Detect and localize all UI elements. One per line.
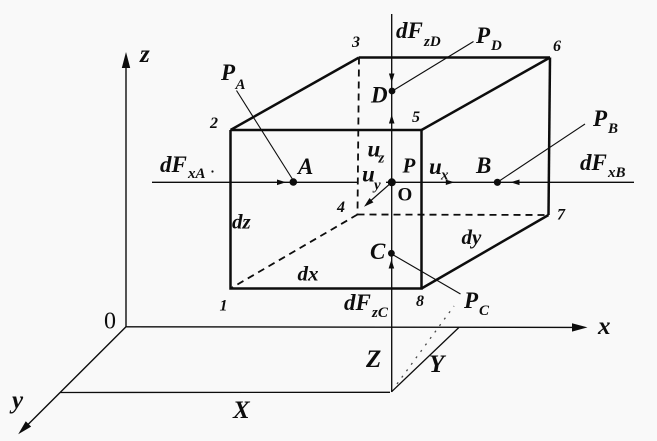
svg-text:4: 4 bbox=[336, 199, 345, 216]
svg-text:P: P bbox=[592, 106, 608, 131]
svg-text:C: C bbox=[370, 239, 386, 264]
svg-text:Z: Z bbox=[365, 346, 381, 373]
svg-text:2: 2 bbox=[209, 115, 218, 132]
svg-text:D: D bbox=[370, 83, 388, 108]
svg-text:A: A bbox=[235, 77, 246, 93]
svg-text:O: O bbox=[398, 185, 413, 206]
svg-text:dF: dF bbox=[396, 18, 423, 43]
svg-text:dy: dy bbox=[462, 225, 483, 249]
svg-text:0: 0 bbox=[104, 309, 116, 335]
svg-text:1: 1 bbox=[220, 298, 228, 315]
svg-text:x: x bbox=[597, 313, 611, 340]
svg-text:8: 8 bbox=[416, 293, 424, 310]
svg-text:7: 7 bbox=[557, 207, 566, 224]
svg-text:dF: dF bbox=[160, 152, 187, 177]
svg-text:z: z bbox=[139, 41, 150, 68]
svg-text:A: A bbox=[296, 154, 313, 179]
svg-text:y: y bbox=[9, 387, 24, 414]
svg-text:B: B bbox=[475, 153, 491, 178]
svg-text:dx: dx bbox=[298, 262, 319, 286]
svg-text:P: P bbox=[402, 154, 416, 178]
svg-text:dF: dF bbox=[344, 290, 371, 315]
svg-text:dz: dz bbox=[232, 210, 252, 234]
svg-text:C: C bbox=[479, 303, 490, 319]
svg-text:P: P bbox=[475, 23, 491, 48]
svg-text:B: B bbox=[607, 121, 618, 137]
svg-text:xB: xB bbox=[607, 165, 626, 181]
svg-text:zD: zD bbox=[423, 34, 441, 50]
svg-text:D: D bbox=[490, 38, 502, 54]
svg-text:6: 6 bbox=[553, 38, 561, 55]
svg-text:X: X bbox=[232, 397, 251, 424]
svg-text:5: 5 bbox=[412, 109, 420, 126]
svg-text:xA: xA bbox=[187, 166, 206, 182]
svg-text:x: x bbox=[440, 168, 449, 184]
svg-text:P: P bbox=[220, 60, 236, 85]
svg-text:z: z bbox=[378, 151, 385, 167]
svg-text:zC: zC bbox=[371, 305, 389, 321]
svg-text:P: P bbox=[463, 288, 479, 313]
svg-text:dF: dF bbox=[580, 150, 607, 175]
svg-text:3: 3 bbox=[351, 34, 360, 51]
svg-text:y: y bbox=[372, 178, 381, 194]
